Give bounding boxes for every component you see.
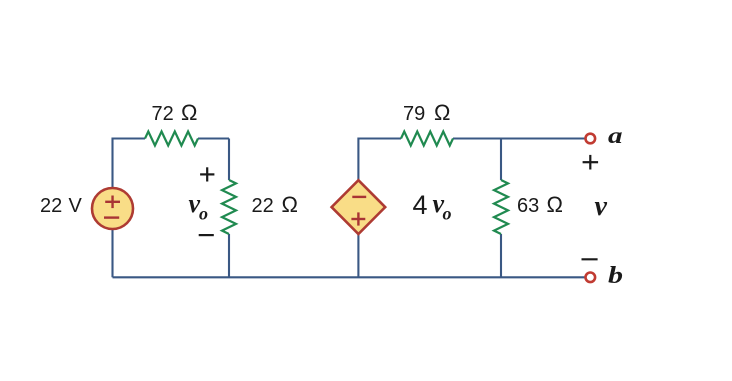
svg-text:b: b	[608, 263, 623, 289]
svg-text:Ω: Ω	[547, 192, 563, 217]
svg-text:Ω: Ω	[434, 100, 450, 125]
svg-text:V: V	[69, 195, 83, 217]
svg-text:22: 22	[40, 195, 62, 217]
svg-text:79: 79	[403, 103, 425, 125]
svg-text:Ω: Ω	[181, 100, 197, 125]
svg-text:a: a	[608, 123, 623, 148]
svg-text:Ω: Ω	[282, 192, 298, 217]
svg-text:v: v	[595, 191, 608, 222]
svg-text:4: 4	[413, 190, 428, 220]
svg-text:72: 72	[152, 103, 174, 125]
svg-text:o: o	[199, 204, 208, 224]
svg-text:o: o	[443, 204, 452, 224]
svg-text:22: 22	[252, 195, 274, 217]
svg-text:63: 63	[517, 195, 539, 217]
